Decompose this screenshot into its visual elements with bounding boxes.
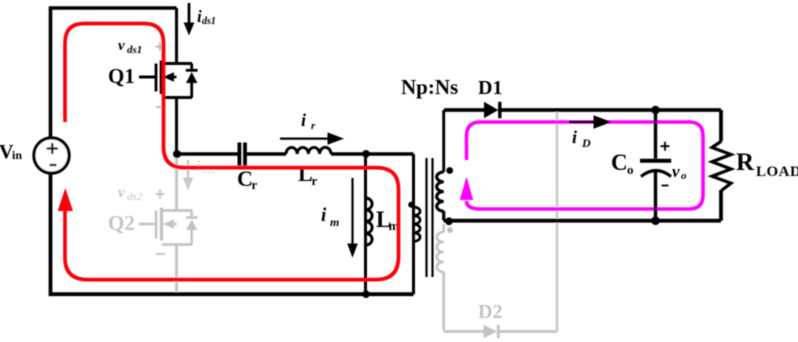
polarity dot gray winding bbox=[447, 227, 453, 233]
svg-text:r: r bbox=[312, 173, 318, 188]
wire secondary top lead bbox=[442, 110, 445, 172]
svg-text:v: v bbox=[118, 185, 125, 201]
capacitor Cr plates bbox=[239, 143, 245, 166]
current arrow i_D bbox=[569, 115, 612, 128]
wire top rail and left rail (Vin to Q1) bbox=[51, 8, 177, 138]
wire Q2 source lead to bottom rail bbox=[175, 245, 178, 293]
current arrow i_r bbox=[280, 132, 344, 144]
wire secondary bottom rail bbox=[444, 219, 721, 223]
svg-text:o: o bbox=[627, 162, 634, 177]
wire primary winding branch bbox=[412, 154, 415, 294]
red primary current loop bbox=[65, 24, 399, 280]
current arrow i_ds1 bbox=[184, 3, 195, 36]
svg-text:i: i bbox=[301, 110, 306, 130]
svg-text:r: r bbox=[311, 120, 316, 132]
svg-text:R: R bbox=[736, 149, 755, 176]
junction dot Lm bottom bbox=[362, 290, 370, 298]
svg-text:D: D bbox=[581, 136, 591, 150]
wire Q1 drain lead bbox=[175, 8, 178, 64]
inductor Lm branch bbox=[366, 154, 373, 294]
red current arrowhead (up, below Vin) bbox=[58, 188, 73, 211]
transformer core bbox=[427, 158, 433, 277]
svg-text:ds1: ds1 bbox=[202, 16, 216, 27]
svg-text:v: v bbox=[672, 162, 680, 181]
svg-text:C: C bbox=[611, 150, 628, 175]
gray minus sign below Q1 bbox=[156, 106, 165, 108]
junction dot Lm top bbox=[362, 150, 370, 158]
minus sign Co bbox=[662, 185, 669, 187]
polarity dot primary bbox=[408, 202, 414, 208]
wire secondary to center tap bbox=[442, 211, 445, 221]
current arrow i_m bbox=[347, 178, 358, 258]
svg-text:m: m bbox=[330, 215, 339, 229]
wire load branch bottom bbox=[719, 190, 723, 221]
svg-text:v: v bbox=[118, 38, 125, 54]
wire red stub above Vin bbox=[65, 24, 399, 280]
svg-text:ds1: ds1 bbox=[127, 44, 142, 56]
svg-text:L: L bbox=[298, 161, 313, 186]
transistor Q2 (inactive, gray) bbox=[139, 157, 198, 292]
wire secondary top rail bbox=[444, 108, 721, 112]
resistor zigzag bbox=[712, 141, 731, 191]
wire Lm branch vertical bbox=[364, 154, 367, 294]
gray plus sign near v_ds1 bbox=[156, 42, 165, 51]
polarity dot secondary bbox=[446, 167, 453, 174]
svg-text:C: C bbox=[237, 166, 253, 191]
junction dot output node bottom bbox=[651, 216, 660, 225]
svg-text:D1: D1 bbox=[478, 77, 502, 99]
wire Lr to primary winding bbox=[331, 152, 414, 156]
secondary coil bbox=[437, 172, 444, 211]
inductor Lm coil bbox=[366, 198, 373, 245]
svg-text:LOAD: LOAD bbox=[756, 164, 798, 180]
svg-text:i: i bbox=[321, 205, 327, 226]
wire bottom rail (Vin to primary winding) bbox=[51, 173, 414, 294]
current arrow i_ds2 (gray) bbox=[183, 160, 193, 191]
wire switch node to Cr bbox=[177, 152, 238, 156]
svg-text:Q1: Q1 bbox=[108, 64, 135, 88]
wire D2 bottom rail (gray) bbox=[444, 330, 557, 333]
svg-text:ds2: ds2 bbox=[127, 191, 143, 203]
svg-text:Np:Ns: Np:Ns bbox=[401, 75, 458, 99]
svg-text:in: in bbox=[12, 148, 22, 162]
resistor R_LOAD branch bbox=[712, 110, 731, 221]
wire load branch top bbox=[719, 110, 723, 141]
transistor Q1 with body diode bbox=[139, 8, 198, 154]
svg-text:D2: D2 bbox=[478, 301, 502, 323]
inductor Lr bbox=[286, 147, 331, 154]
svg-text:r: r bbox=[252, 177, 258, 192]
plus sign Co bbox=[661, 142, 670, 151]
minus sign v_ds2 bbox=[156, 253, 165, 255]
capacitor Co plates bbox=[640, 159, 671, 163]
svg-text:o: o bbox=[681, 170, 687, 182]
transformer secondary winding (upper, active) bbox=[437, 110, 444, 221]
plus sign v_ds2 bbox=[156, 190, 165, 199]
winding Ns2 (gray lower secondary winding) bbox=[437, 224, 444, 330]
wire Q2 drain lead from switch node bbox=[175, 157, 178, 211]
wire Cr to Lr bbox=[247, 152, 286, 156]
svg-text:Q2: Q2 bbox=[108, 211, 135, 235]
wire D2 cathode riser (gray) bbox=[556, 112, 559, 332]
magenta secondary current loop bbox=[467, 122, 704, 209]
magenta current arrowhead (up) bbox=[460, 177, 473, 201]
diode D2 (gray) bbox=[484, 325, 499, 338]
junction dot switch node bbox=[173, 150, 181, 158]
junction dot output node top bbox=[651, 106, 660, 115]
transformer primary winding bbox=[414, 207, 421, 241]
junction dot center tap bbox=[445, 217, 453, 225]
diode D1 bbox=[484, 102, 500, 118]
voltage source Vin bbox=[34, 138, 69, 173]
wire Q1 source lead to switch node bbox=[175, 98, 178, 155]
wire output capacitor branch bbox=[654, 110, 657, 221]
svg-text:i: i bbox=[572, 127, 577, 147]
